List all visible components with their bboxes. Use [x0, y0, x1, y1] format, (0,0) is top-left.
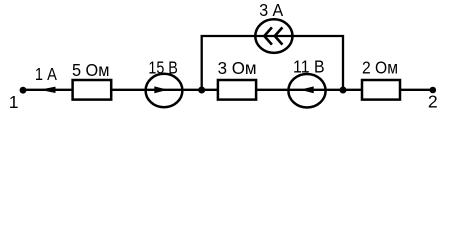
svg-text:3 А: 3 А: [259, 0, 283, 20]
svg-text:2 Ом: 2 Ом: [362, 58, 398, 78]
svg-text:3 Ом: 3 Ом: [218, 58, 257, 78]
svg-text:11 В: 11 В: [293, 57, 325, 77]
svg-text:1 А: 1 А: [35, 64, 57, 84]
svg-text:5 Ом: 5 Ом: [72, 60, 110, 80]
svg-text:1: 1: [9, 92, 19, 112]
svg-text:2: 2: [428, 92, 438, 112]
svg-text:15 В: 15 В: [148, 58, 178, 78]
